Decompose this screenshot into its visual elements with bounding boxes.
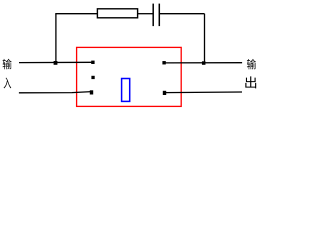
- amplifier block (red box): [77, 47, 182, 106]
- node: junction dot input/feedback: [54, 61, 58, 65]
- wire: output top line: [164, 62, 242, 64]
- node: output top terminal dot: [162, 61, 165, 64]
- capacitor C1 plate left: [152, 4, 154, 27]
- node: middle terminal dot: [91, 76, 94, 79]
- node: input bottom terminal dot: [90, 90, 93, 94]
- wire: capacitor to top-right corner: [160, 13, 205, 15]
- wire: resistor to capacitor: [138, 13, 153, 15]
- wire: feedback top-right vertical: [204, 14, 206, 64]
- node: junction dot output/feedback: [202, 61, 206, 65]
- wire: input bottom line: [19, 92, 92, 93]
- label: output char 输: [247, 59, 256, 69]
- wire: input top line: [19, 61, 93, 63]
- label: input char 输: [3, 59, 12, 69]
- wire: feedback top horizontal left segment: [55, 13, 97, 15]
- component inside block (blue rect): [122, 79, 130, 102]
- label: output char 出: [245, 76, 256, 88]
- node: input top terminal dot: [91, 61, 94, 64]
- resistor R1: [97, 9, 137, 18]
- wire: feedback top-left vertical: [55, 14, 57, 64]
- label: input char 入: [4, 78, 12, 89]
- capacitor C1 plate right: [158, 4, 160, 27]
- node: output bottom terminal dot: [163, 91, 166, 95]
- wire: output bottom line: [164, 91, 242, 94]
